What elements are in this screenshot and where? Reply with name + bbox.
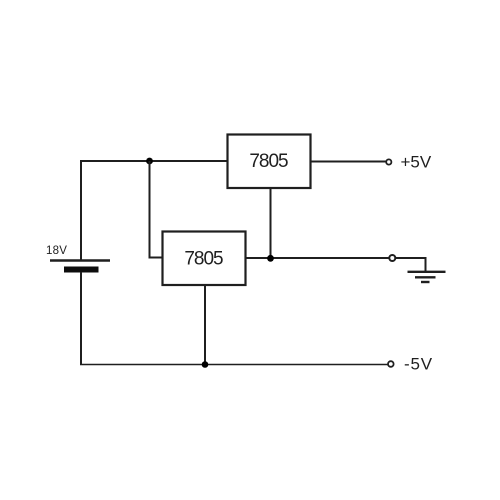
svg-text:18V: 18V: [46, 245, 67, 257]
wire regulator U1 output to +5V terminal: [311, 161, 387, 163]
svg-text:7805: 7805: [184, 249, 223, 270]
wire ground terminal to earth symbol: [396, 258, 426, 271]
junction node B: [267, 255, 274, 262]
junction node C on bottom rail: [202, 361, 209, 368]
wire bottom rail battery negative to -5V terminal: [80, 364, 388, 366]
terminal circle common ground: [389, 255, 395, 261]
terminal circle +5V output: [386, 159, 391, 164]
ground symbol bar 2: [415, 276, 436, 278]
wire regulator U2 ground pin down to node C: [204, 285, 206, 365]
svg-text:7805: 7805: [249, 151, 288, 172]
junction node A on top rail: [146, 158, 153, 165]
wire battery negative down to bottom rail: [80, 272, 82, 365]
wire node A down to regulator U2 input: [150, 161, 163, 258]
ground symbol bar 3: [421, 281, 430, 283]
wire regulator U2 output through node B to ground terminal: [246, 257, 390, 259]
op-amp box regulator U1 7805: [228, 135, 311, 189]
wire top rail to regulator U1 input: [80, 160, 228, 162]
svg-text:+5V: +5V: [401, 153, 432, 172]
wire battery positive to top rail: [80, 161, 82, 261]
ground symbol bar 1: [408, 271, 446, 273]
battery B1 positive plate: [50, 259, 110, 261]
battery B1 negative plate: [64, 267, 99, 273]
terminal circle -5V output: [388, 361, 394, 367]
regulator U2 7805 box: [163, 232, 246, 286]
wire regulator U1 ground pin down to node B: [270, 188, 272, 258]
svg-text:-5V: -5V: [404, 355, 433, 374]
